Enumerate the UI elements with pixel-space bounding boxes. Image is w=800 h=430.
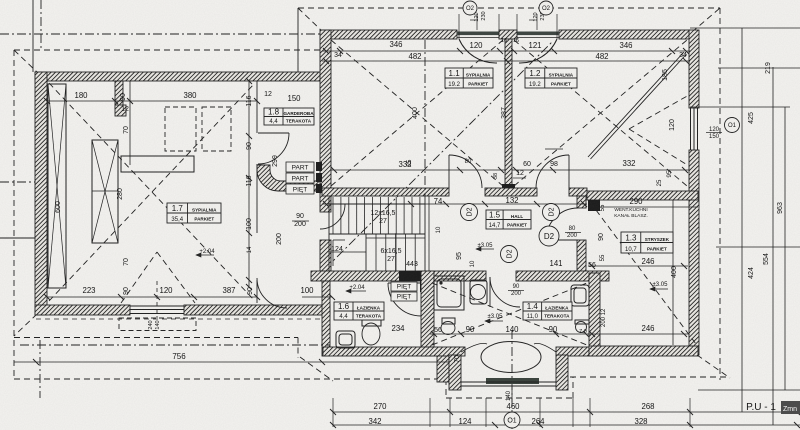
chimney block room 1.7	[92, 140, 118, 243]
bay counter curve right	[534, 343, 556, 352]
dimension line 1.6 (100)	[302, 296, 332, 298]
room label bedroom 1.2	[525, 68, 577, 88]
furniture line room 1.7	[129, 81, 131, 165]
wall central-wing east (upper)	[689, 30, 699, 108]
wall corridor east / bedroom-1.1 west	[320, 30, 331, 212]
wall stryszek north	[587, 191, 698, 200]
bottom vertical dimension droppers	[332, 398, 334, 427]
door symbol D2 bedroom 1.2	[543, 204, 560, 221]
room label hall 1.5	[486, 210, 531, 229]
axis dash-dot vertical bottom left	[39, 340, 41, 398]
window O2 left in north wall	[457, 32, 499, 36]
dimension vertical 400 stryszek	[672, 200, 674, 345]
door 1.6 leaf	[388, 282, 421, 284]
roof dashed hip to window corner lower	[629, 129, 689, 166]
window symbol O1 bay	[504, 412, 520, 428]
eaves dashed below left wing	[14, 337, 298, 339]
roof hip solid double line bedroom 1.2 b	[591, 54, 687, 159]
wall stryszek south	[589, 346, 698, 356]
dimension line above left-wing south wall	[47, 296, 257, 298]
room label bedroom 1.1	[445, 68, 493, 88]
dashed window sill outside left wing	[119, 318, 196, 331]
window in left-wing south wall	[130, 305, 184, 307]
bay window oval tub	[481, 342, 541, 373]
eaves diagonal SE corner	[697, 355, 730, 378]
door hall-to-1.4 arc	[490, 277, 520, 307]
level arrow stryszek	[650, 288, 668, 290]
eaves dashed bottom left	[14, 378, 449, 380]
eaves diagonal at terrace step	[300, 357, 333, 381]
wall hall south (west part)	[311, 271, 486, 281]
dimension line hall top (74/132)	[322, 203, 587, 205]
wall central-wing east (lower)	[689, 150, 699, 355]
eaves dashed right side	[719, 8, 721, 380]
window jamb line O2 right a	[516, 14, 518, 39]
room label garderoba 1.8	[264, 108, 314, 125]
roof dashed diagonal bedroom 1.1 a	[331, 40, 503, 186]
scan noise overlay	[0, 0, 1, 1]
fraction lines of size labels	[292, 220, 309, 222]
room label stryszek 1.3	[621, 232, 673, 253]
level arrow room 1.7	[196, 254, 214, 256]
wall bathroom-1.4 east	[589, 273, 600, 356]
roof dashed diagonal bathroom 1.4 b	[432, 283, 587, 345]
roof edge vertical at central wing NW	[297, 8, 299, 72]
eaves diagonal NE corner	[692, 8, 720, 32]
window centre dashed line	[156, 281, 158, 318]
corridor vertical dimension chain	[248, 81, 250, 287]
door garderoba leaf	[258, 132, 289, 134]
roof dashed diagonal room 1.7 b	[49, 83, 255, 301]
wall hall-stryszek (upper)	[577, 196, 586, 208]
window jamb line O2 left b	[498, 14, 500, 39]
axis dash-dot bottom left	[20, 344, 330, 346]
title badge Zmn	[781, 401, 800, 414]
eaves diagonal at central wing NW corner	[298, 8, 323, 32]
eaves dashed top central wing	[298, 7, 720, 9]
roof dashed diagonal bedroom 1.2 b	[514, 40, 687, 186]
axis dash-dot centerline of bay	[511, 330, 513, 430]
stair mid boundary	[395, 233, 397, 271]
room label bedroom 1.7	[167, 203, 221, 223]
level arrow corridor south	[346, 290, 366, 292]
wall central-wing north (west segment)	[322, 30, 457, 39]
kitchen vent shaft	[588, 200, 600, 211]
bay counter curve left	[461, 343, 487, 352]
window O1 in east wall	[690, 108, 692, 150]
roof dashed hip to window corner upper	[629, 95, 689, 129]
stair step corner lines	[332, 240, 334, 266]
dashed furniture rect a room 1.7	[165, 107, 196, 151]
eaves dashed below bay	[446, 397, 576, 399]
toilet bathroom 1.6	[362, 320, 381, 326]
wall left-wing south (west part)	[35, 305, 130, 315]
door corridor-to-stair arc	[320, 204, 345, 229]
right side dimension horizontals	[690, 27, 800, 29]
door hall-to-stryszek leaf	[546, 239, 578, 241]
label box PIET hall a	[391, 282, 417, 291]
partition room1.7/corridor lower	[256, 280, 258, 303]
wall solid chunk in hall south wall	[399, 271, 428, 281]
washbasin bathroom 1.4	[470, 280, 487, 304]
dimension line below left-wing north wall	[47, 100, 257, 102]
stair rail	[366, 237, 425, 239]
terrace edge dashed below left wing	[36, 318, 322, 320]
wall bay step west	[437, 356, 449, 382]
axis dash-dot horizontal left	[0, 181, 36, 183]
axis dash-dot vertical through bedroom 1.1	[424, 40, 426, 196]
dimension line bedrooms mid (332)	[331, 169, 505, 171]
dimension line left edge	[0, 237, 36, 239]
roof dashed diagonal bedroom 1.2 a	[514, 40, 687, 186]
label box PIET hall b	[391, 292, 417, 301]
door hall-to-stryszek arc	[546, 208, 578, 240]
room label bathroom 1.4	[523, 302, 572, 320]
bottom dimension line row 1	[333, 411, 800, 413]
roof dashed diagonal bathroom 1.4 a	[432, 283, 587, 345]
dimension line top of central wing	[322, 50, 690, 52]
small basin bathroom 1.4 east	[576, 322, 587, 333]
door symbol D2 bedroom 1.1	[461, 204, 478, 221]
window O2 right in north wall	[517, 32, 559, 36]
wall hall south (east part)	[516, 271, 609, 281]
eaves dashed step right of bay	[572, 377, 574, 398]
window jamb line O2 right b	[556, 14, 558, 39]
right side dimension verticals	[741, 28, 743, 412]
dashed triangle dormer room 1.7	[121, 252, 157, 303]
window O2 right swing arc	[519, 39, 557, 63]
bottom dimension line row 2	[333, 424, 800, 426]
wall corridor east lower	[320, 240, 331, 271]
shower bathroom 1.4	[434, 276, 464, 310]
wall between bedrooms 1.1 and 1.2	[505, 39, 512, 185]
roof dashed diagonal bedroom 1.1 b	[331, 40, 503, 186]
wall hall north (east segment)	[569, 188, 587, 196]
axis dash-dot vertical top-left	[40, 0, 42, 50]
door symbol D2 bathroom	[501, 246, 518, 263]
door bedroom-1.2 leaf	[568, 155, 570, 188]
window symbol O2 left	[463, 1, 477, 15]
wall left-wing south (east part)	[184, 305, 330, 315]
level arrow hall	[476, 248, 494, 250]
wardrobe along west wall room 1.7	[48, 84, 66, 288]
stairs lower flight	[365, 234, 367, 271]
bay window sill dark bar	[486, 378, 539, 384]
label box PART lower	[286, 173, 314, 183]
door hall-to-1.4 leaf	[489, 277, 491, 307]
eaves diagonal SW corner	[14, 314, 37, 336]
eaves dashed step down	[297, 338, 299, 359]
label box PART upper	[286, 162, 314, 172]
eaves dashed top-left wing	[14, 49, 321, 51]
dimension line bay vertical 140	[511, 386, 513, 402]
door bedroom-1.2 arc	[536, 155, 569, 188]
door bedroom-1.1 arc	[449, 155, 482, 188]
partition room1.7/corridor	[256, 164, 258, 233]
stairs upper flight	[328, 197, 330, 271]
axis dash-dot horizontal upper-left	[0, 33, 321, 35]
roof hip solid double line bedroom 1.2 a	[588, 52, 684, 157]
pillar room-1.7 north	[115, 81, 123, 109]
small wall squares beside PART labels	[316, 162, 322, 171]
desk room 1.7	[121, 156, 194, 172]
door garderoba arc	[258, 133, 289, 164]
roof dashed diagonal room 1.7 a	[49, 83, 255, 301]
wall central-wing north (east segment)	[559, 30, 690, 39]
door corridor-south arc	[257, 278, 287, 308]
wall bathroom-1.6 west	[322, 281, 330, 356]
wall left-wing north	[35, 72, 322, 81]
stair east double line	[428, 196, 430, 271]
wall hall north (middle segment)	[485, 188, 537, 196]
door bedroom-1.1 leaf	[448, 155, 450, 188]
wall bay east column	[556, 355, 568, 390]
level arrow bathroom 1.4	[485, 320, 503, 322]
wall hall north (west segment)	[322, 188, 449, 196]
dimension line 756	[14, 361, 449, 363]
eaves dashed bottom right	[570, 376, 730, 378]
window symbol O2 right	[539, 1, 553, 15]
door 1.6 arc	[388, 283, 421, 316]
wall corridor curved corner	[257, 165, 320, 191]
wall central-wing north (middle pier)	[499, 30, 517, 39]
wall chunk at bedroom divider foot	[502, 184, 515, 195]
dimension line second row top	[322, 60, 690, 62]
eaves dashed step left of bay	[445, 379, 447, 398]
wall left-wing west	[35, 72, 47, 315]
window centre line O2 right	[536, 14, 538, 30]
window centre line O2 left	[476, 14, 478, 30]
roof dashed diagonal stryszek	[590, 202, 696, 344]
stryszek dimension lines	[588, 206, 698, 208]
partition room1.7/garderoba upper	[256, 81, 258, 133]
toilet bathroom 1.4	[442, 318, 455, 324]
window symbol O1 east	[725, 118, 740, 133]
wall bathroom divider 1.6/1.4	[421, 271, 434, 356]
washbasin bathroom 1.6	[336, 331, 355, 348]
bathtub bathroom 1.4 east	[571, 285, 589, 306]
dimension line bay widths	[430, 333, 589, 335]
wall bay west column	[449, 355, 461, 390]
wall bathroom-1.4 south east part	[556, 347, 589, 356]
door symbol D2 stryszek	[539, 226, 559, 246]
window O2 left swing arc	[459, 39, 497, 63]
eaves diagonal top-left corner	[14, 50, 38, 73]
axis solid vertical top-left	[32, 0, 34, 72]
dashed furniture rect b room 1.7	[202, 107, 231, 151]
label box PIET corridor	[286, 184, 314, 194]
eaves dashed left side	[13, 50, 15, 379]
wall hall-stryszek (lower)	[577, 240, 586, 281]
window jamb line O2 left a	[458, 14, 460, 39]
roof ridge dash-dot diagonal through stairwell	[325, 41, 553, 269]
wall bathroom-1.6 south	[323, 347, 465, 356]
room label bathroom 1.6	[334, 302, 384, 320]
